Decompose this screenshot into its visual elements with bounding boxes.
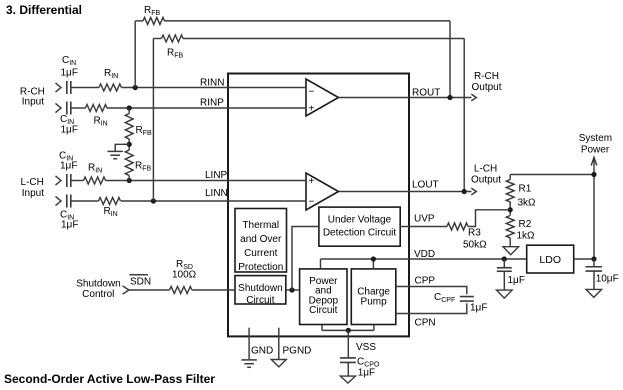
svg-text:Shutdown: Shutdown	[238, 283, 282, 294]
ground (VSS)	[340, 376, 355, 383]
wire RFB1 left drop	[134, 21, 136, 88]
ground (bias earth)	[108, 151, 123, 158]
op-amp A1 (R-CH)	[306, 79, 339, 116]
svg-text:RINN: RINN	[200, 77, 224, 88]
svg-text:Pump: Pump	[361, 296, 388, 307]
pin label CPN	[415, 318, 436, 329]
arrow System Power	[591, 157, 597, 165]
junction system/top	[591, 172, 596, 177]
svg-text:Second-Order Active Low-Pass F: Second-Order Active Low-Pass Filter	[4, 372, 215, 386]
capacitor CIN (R-CH bottom)	[67, 102, 71, 115]
resistor RIN (row2)	[86, 105, 107, 112]
wire RFB1 lead	[135, 20, 143, 22]
wire LOUT	[339, 191, 472, 193]
svg-text:RIN: RIN	[104, 206, 118, 218]
wire row3 cap-res	[71, 180, 83, 182]
capacitor CCPF	[460, 297, 474, 302]
capacitor CIN (L-CH bottom)	[67, 195, 71, 208]
capacitor CIN (R-CH top)	[67, 81, 71, 94]
wire charge pump bottom drop	[373, 325, 375, 331]
wire UVP	[400, 226, 447, 228]
svg-text:Under Voltage: Under Voltage	[328, 214, 392, 225]
wire PGND stub	[278, 328, 280, 360]
pin label RINN	[200, 77, 224, 88]
wire R1-R2	[509, 202, 511, 216]
svg-text:RFB: RFB	[167, 47, 184, 59]
svg-text:Input: Input	[22, 188, 44, 199]
junction LINP/bias	[127, 178, 132, 183]
ground (10uF cap)	[586, 289, 602, 297]
junction rail/10uF	[591, 256, 596, 261]
junction shutdown node	[289, 287, 294, 292]
svg-text:1μF: 1μF	[60, 161, 77, 172]
ground (below R2)	[503, 247, 519, 255]
junction ROUT/RFB1	[447, 95, 452, 100]
Power and Depop Circuit block	[300, 269, 347, 325]
wire RFB2 left drop	[152, 39, 154, 202]
svg-text:R-CH: R-CH	[474, 71, 499, 82]
wire ROUT	[339, 97, 472, 99]
svg-text:LDO: LDO	[539, 254, 561, 266]
pin label VDD	[414, 249, 435, 260]
pin label VSS	[356, 342, 376, 353]
svg-text:RIN: RIN	[88, 163, 102, 175]
label CCPO	[357, 356, 380, 368]
svg-text:10μF: 10μF	[596, 274, 619, 285]
wire ground tap	[115, 144, 129, 151]
svg-text:CPP: CPP	[415, 275, 436, 286]
svg-text:R3: R3	[468, 228, 481, 239]
label 1uF (row3)	[60, 161, 77, 172]
junction RINN/RFB	[133, 85, 138, 90]
pin label ROUT	[412, 87, 440, 98]
svg-text:System: System	[579, 133, 612, 144]
L-CH Input label	[21, 177, 45, 199]
svg-text:PGND: PGND	[283, 346, 312, 357]
LDO block	[527, 245, 574, 273]
caption Second-Order Active Low-Pass Filter	[4, 372, 215, 386]
wire VDD drop to Power Depop	[320, 259, 322, 269]
svg-text:3. Differential: 3. Differential	[6, 3, 82, 17]
junction VDD/1uF	[502, 256, 507, 261]
label 1uF (CCPO)	[358, 367, 375, 378]
label RIN (row2)	[94, 116, 108, 128]
resistor RSD	[170, 287, 192, 294]
wire VSS down	[347, 330, 349, 357]
label 1uF (row2)	[61, 125, 78, 136]
resistor RFB (top R-CH)	[143, 17, 165, 24]
resistor RIN (row1)	[99, 84, 121, 91]
svg-text:Power: Power	[581, 144, 610, 155]
wire row2 to op-amp	[107, 107, 306, 109]
R-CH Output label	[471, 71, 501, 93]
resistor R1	[506, 180, 514, 202]
svg-text:RFB: RFB	[136, 125, 153, 137]
wire SDN to RSD	[129, 289, 170, 291]
label 1uF (row1)	[61, 67, 78, 78]
label 1uF (CCPF)	[470, 302, 487, 313]
title	[6, 3, 82, 17]
svg-text:Output: Output	[471, 82, 501, 93]
label SDN overline	[130, 275, 152, 288]
svg-text:RFB: RFB	[135, 161, 152, 173]
wire L-CH out top run	[510, 174, 594, 176]
wire bias mid	[128, 139, 130, 150]
svg-text:1μF: 1μF	[508, 275, 525, 286]
wire R3 to divider	[468, 210, 510, 227]
pin label LOUT	[412, 180, 439, 191]
input arrow L-CH top	[56, 176, 62, 185]
wire CCPO to ground	[347, 362, 349, 376]
wire row4 to op-amp	[121, 200, 306, 202]
svg-text:RFB: RFB	[144, 5, 161, 17]
label 10uF	[596, 274, 619, 285]
label 100ohm	[172, 270, 197, 281]
wire shutdown riser to UVDC	[292, 227, 319, 291]
resistor R2	[506, 216, 514, 238]
junction bias mid	[127, 142, 132, 147]
svg-text:RINP: RINP	[200, 97, 224, 108]
label RFB (bias lower)	[135, 161, 152, 173]
svg-text:Detection Circuit: Detection Circuit	[323, 227, 397, 238]
svg-text:Circuit: Circuit	[309, 305, 338, 316]
ground PGND (triangle)	[271, 360, 286, 367]
svg-text:ROUT: ROUT	[412, 87, 440, 98]
svg-text:Current: Current	[244, 248, 278, 259]
svg-text:VSS: VSS	[356, 342, 376, 353]
pin label PGND	[283, 346, 312, 357]
Shutdown Control label	[76, 278, 120, 300]
svg-text:3kΩ: 3kΩ	[518, 198, 537, 209]
svg-text:LINN: LINN	[205, 188, 228, 199]
svg-text:1μF: 1μF	[358, 367, 375, 378]
label R2	[519, 219, 532, 230]
label CCPF	[434, 292, 455, 304]
wire row1 to op-amp	[121, 87, 306, 89]
svg-text:SDN: SDN	[130, 276, 151, 287]
svg-text:RIN: RIN	[104, 68, 118, 80]
junction RINP/bias	[127, 105, 132, 110]
wire row1 cap-res	[71, 87, 99, 89]
svg-text:R2: R2	[519, 219, 532, 230]
label RSD	[176, 259, 193, 271]
R-CH Input label	[20, 86, 45, 107]
ground GND (earth)	[241, 360, 256, 367]
junction LINN/RFB	[151, 198, 156, 203]
svg-text:100Ω: 100Ω	[172, 270, 197, 281]
svg-text:−: −	[309, 197, 315, 208]
input arrow R-CH top	[56, 83, 62, 92]
wire R1 top lead	[509, 175, 511, 180]
label RFB (top R-CH)	[144, 5, 161, 17]
output arrow LOUT	[471, 188, 476, 195]
wire CPP	[396, 287, 467, 295]
label 1uF (row4)	[61, 219, 78, 230]
svg-text:1μF: 1μF	[61, 125, 78, 136]
wire RFB1 top run	[165, 20, 451, 22]
svg-text:1kΩ: 1kΩ	[517, 230, 536, 241]
wire row2 cap-res	[71, 107, 85, 109]
capacitor 10uF	[586, 259, 603, 289]
Under Voltage Detection Circuit block	[319, 207, 400, 246]
input arrow SDN	[123, 286, 130, 294]
label RIN (row4)	[104, 206, 118, 218]
junction R1/R2	[508, 207, 513, 212]
wire VDD	[321, 258, 527, 260]
wire R2 bottom lead	[509, 238, 511, 247]
wire RFB2 top run	[183, 38, 464, 40]
wire RFB2 right drop	[463, 39, 465, 192]
ground (VDD cap)	[497, 290, 513, 298]
pin label GND	[251, 346, 273, 357]
IC boundary U1	[228, 74, 409, 337]
wire GND stub	[248, 328, 250, 360]
Charge Pump block	[351, 269, 396, 325]
pin label UVP	[414, 213, 435, 224]
junction VDD/charge pump	[371, 256, 376, 261]
svg-text:and Over: and Over	[240, 234, 282, 245]
pin label RINP	[200, 97, 224, 108]
svg-text:50kΩ: 50kΩ	[463, 239, 487, 250]
wire CPN	[396, 303, 467, 313]
junction LOUT/RFB2	[462, 189, 467, 194]
junction VSS	[346, 328, 351, 333]
svg-text:Control: Control	[82, 289, 114, 300]
resistor RFB (bias upper)	[125, 114, 133, 140]
input arrow L-CH bottom	[56, 196, 62, 205]
resistor RIN (row4)	[99, 198, 121, 205]
label CIN (row4)	[60, 209, 74, 221]
svg-text:LOUT: LOUT	[412, 180, 439, 191]
svg-text:L-CH: L-CH	[474, 163, 497, 174]
svg-text:Thermal: Thermal	[242, 220, 279, 231]
label 3k	[518, 198, 537, 209]
resistor RIN (row3)	[84, 177, 106, 184]
label 50k	[463, 239, 487, 250]
wire bottom rail	[322, 329, 374, 331]
label CIN (row1)	[62, 55, 76, 67]
capacitor 1uF (VDD)	[497, 259, 512, 290]
svg-text:Protection: Protection	[238, 262, 283, 273]
svg-text:L-CH: L-CH	[21, 177, 44, 188]
wire RSD to shutdown block	[192, 289, 235, 291]
wire RFB1 right drop	[449, 21, 451, 98]
svg-text:Shutdown: Shutdown	[76, 278, 120, 289]
label RIN (row3)	[88, 163, 102, 175]
svg-text:1μF: 1μF	[61, 219, 78, 230]
svg-text:LINP: LINP	[205, 170, 228, 181]
svg-text:CPN: CPN	[415, 318, 436, 329]
svg-text:Output: Output	[471, 174, 501, 185]
svg-text:CIN: CIN	[62, 55, 76, 67]
capacitor CIN (L-CH top)	[67, 174, 71, 187]
svg-text:Circuit: Circuit	[246, 295, 275, 306]
svg-text:Input: Input	[22, 97, 44, 108]
label 1k	[517, 230, 536, 241]
label 1uF (VDD)	[508, 275, 525, 286]
svg-text:+: +	[309, 176, 315, 187]
System Power label	[579, 133, 612, 155]
label CIN (row3)	[59, 151, 73, 163]
wire bias bottom lead	[128, 176, 130, 181]
wire row4 cap-res	[71, 200, 98, 202]
svg-text:CCPF: CCPF	[434, 292, 455, 304]
L-CH Output label	[471, 163, 501, 185]
pin label CPP	[415, 275, 436, 286]
wire depop bottom drop	[321, 325, 323, 331]
svg-text:UVP: UVP	[414, 213, 435, 224]
svg-text:1μF: 1μF	[470, 302, 487, 313]
svg-text:1μF: 1μF	[61, 67, 78, 78]
wire system power rail	[593, 157, 595, 259]
label RFB (top L-CH)	[167, 47, 184, 59]
input arrow R-CH bottom	[56, 103, 62, 112]
svg-text:RIN: RIN	[94, 116, 108, 128]
wire shutdown to depop	[286, 289, 300, 291]
output arrow ROUT	[471, 94, 476, 101]
pin label LINP	[205, 170, 228, 181]
wire bias top lead	[128, 108, 130, 114]
svg-text:+: +	[309, 104, 315, 115]
label R3	[468, 228, 481, 239]
svg-text:−: −	[309, 87, 315, 98]
Thermal and Over Current Protection block	[235, 209, 287, 273]
pin label LINN	[205, 188, 228, 199]
wire row3 to op-amp	[106, 180, 307, 182]
resistor RFB (bias lower)	[125, 150, 133, 175]
op-amp A2 (L-CH)	[306, 173, 339, 210]
label RFB (bias upper)	[136, 125, 153, 137]
resistor R3	[447, 223, 468, 230]
svg-text:R1: R1	[519, 183, 532, 194]
label RIN (row1)	[104, 68, 118, 80]
capacitor CCPO	[340, 358, 356, 363]
svg-text:GND: GND	[251, 346, 273, 357]
wire VDD drop to Charge Pump	[372, 259, 374, 269]
wire RFB2 lead	[153, 38, 161, 40]
wire LDO to rail	[574, 258, 594, 260]
Shutdown Circuit block	[235, 276, 286, 306]
label CIN (row2)	[60, 114, 74, 126]
label R1	[519, 183, 532, 194]
resistor RFB (top L-CH)	[162, 35, 184, 42]
